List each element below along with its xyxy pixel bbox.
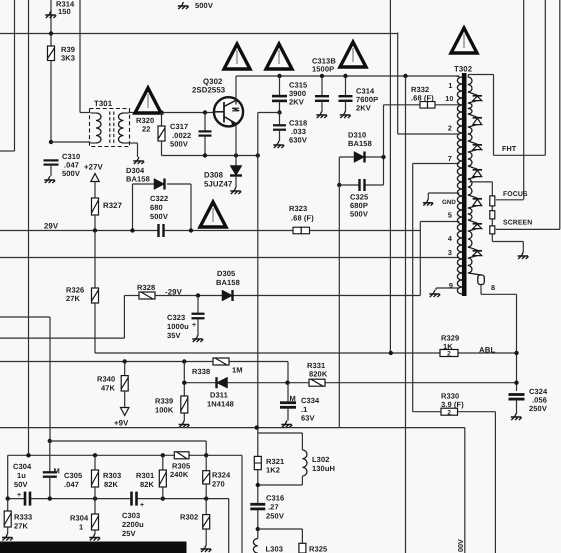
warning triangle top 2 bbox=[266, 44, 292, 69]
svg-text:C305: C305 bbox=[64, 471, 82, 480]
ground C334 bbox=[281, 421, 292, 428]
diode D311 bbox=[217, 377, 228, 388]
svg-text:R302: R302 bbox=[180, 513, 198, 522]
resistor R325 bbox=[299, 543, 306, 553]
resistor R324 bbox=[205, 455, 207, 470]
ground T301 secondary bbox=[133, 157, 144, 164]
capacitor C318 bbox=[279, 113, 281, 126]
svg-text:680: 680 bbox=[150, 203, 163, 212]
node R39 top bbox=[49, 31, 53, 35]
inductor L303 bbox=[253, 539, 257, 553]
node 455-28 bbox=[26, 453, 30, 457]
svg-text:5: 5 bbox=[448, 211, 452, 220]
svg-text:R340: R340 bbox=[97, 375, 115, 384]
FOCUS wire bbox=[496, 199, 524, 201]
node 498-206 bbox=[204, 496, 208, 500]
capacitor C313B bbox=[321, 76, 323, 96]
resistor R333 bbox=[7, 499, 9, 511]
node D311 left bbox=[182, 381, 186, 385]
svg-text:7: 7 bbox=[448, 154, 452, 163]
node L302 bottom bbox=[256, 483, 260, 487]
wire C325 line bbox=[339, 184, 383, 186]
node 498-95 bbox=[93, 496, 97, 500]
wire right drop 495 bbox=[494, 412, 496, 553]
svg-text:1000u: 1000u bbox=[167, 322, 189, 331]
wire pin7 drop bbox=[412, 164, 414, 412]
node C317 bottom bbox=[203, 153, 207, 157]
node C317 top bbox=[203, 110, 207, 114]
svg-text:2200u: 2200u bbox=[122, 520, 144, 529]
T302 secondary winding chain bbox=[468, 77, 472, 92]
resistor R328 bbox=[124, 295, 139, 297]
wire top bus 33.5 bbox=[0, 33, 398, 35]
resistor R331 bbox=[309, 379, 325, 386]
resistor R326 bbox=[94, 231, 96, 289]
svg-text:R304: R304 bbox=[70, 514, 89, 523]
capacitor C316 bbox=[256, 504, 260, 509]
svg-text:5JUZ47: 5JUZ47 bbox=[204, 180, 232, 189]
svg-text:.27: .27 bbox=[268, 503, 279, 512]
svg-text:10: 10 bbox=[445, 94, 453, 103]
svg-text:C316: C316 bbox=[266, 494, 284, 503]
capacitor C323 bbox=[197, 296, 199, 314]
wire 339 drop bbox=[338, 185, 340, 428]
wire bias line 441 bbox=[48, 439, 52, 443]
wire base line bbox=[162, 112, 216, 114]
resistor R329 bbox=[440, 350, 458, 357]
svg-text:R328: R328 bbox=[137, 283, 155, 292]
svg-text:2: 2 bbox=[447, 351, 451, 358]
svg-text:47K: 47K bbox=[101, 384, 116, 393]
wire -29V line bbox=[198, 295, 420, 297]
svg-text:C323: C323 bbox=[167, 313, 185, 322]
wire D310 top line bbox=[339, 156, 383, 158]
svg-text:D311: D311 bbox=[210, 391, 228, 400]
svg-text:3.9 (F): 3.9 (F) bbox=[441, 400, 464, 409]
node loop top-right bbox=[381, 155, 385, 159]
resistor R320 bbox=[161, 113, 163, 127]
svg-text:8: 8 bbox=[491, 283, 495, 292]
svg-text:25V: 25V bbox=[122, 529, 136, 538]
capacitor C303 bbox=[132, 497, 137, 501]
node C314 top bbox=[343, 74, 347, 78]
svg-text:500V: 500V bbox=[62, 169, 80, 178]
node T301 primary bottom bbox=[49, 140, 53, 144]
wire bus end drop bbox=[287, 362, 289, 383]
svg-text:.68 (F): .68 (F) bbox=[411, 94, 434, 103]
wire right edge drop 464 bbox=[464, 428, 466, 553]
wire drop 228 bbox=[228, 499, 230, 553]
resistor R301 bbox=[162, 455, 164, 470]
T302 pin 9 wire bbox=[436, 287, 459, 289]
svg-text:00V: 00V bbox=[456, 539, 465, 552]
svg-text:500V: 500V bbox=[170, 140, 188, 149]
warning triangle top 3 bbox=[340, 42, 366, 67]
svg-text:1u: 1u bbox=[17, 471, 26, 480]
wire loop left bbox=[338, 157, 340, 185]
svg-text:BA158: BA158 bbox=[126, 175, 150, 184]
node C315 top bbox=[277, 74, 281, 78]
svg-text:+9V: +9V bbox=[114, 419, 129, 428]
ground C318 bbox=[273, 141, 284, 148]
resistor R327 bbox=[94, 182, 96, 199]
svg-text:R333: R333 bbox=[14, 513, 32, 522]
resistor R321 bbox=[254, 456, 261, 469]
ground C323 bbox=[192, 335, 203, 342]
svg-text:L302: L302 bbox=[312, 455, 330, 464]
svg-text:1: 1 bbox=[79, 523, 83, 532]
capacitor C334 bbox=[287, 383, 289, 403]
wire collector bus 76 bbox=[236, 75, 459, 77]
ground C310 bbox=[44, 176, 55, 183]
svg-text:1500P: 1500P bbox=[312, 65, 334, 74]
resistor R339 bbox=[181, 396, 188, 413]
svg-text:R327: R327 bbox=[103, 201, 122, 210]
ground T302 GND pin bbox=[423, 199, 433, 206]
resistor R323 bbox=[293, 227, 310, 234]
wire T301 secondary top to base line bbox=[123, 112, 129, 114]
T302 pin 1 bbox=[457, 76, 460, 77]
svg-text:1K: 1K bbox=[443, 342, 453, 351]
svg-text:R301: R301 bbox=[136, 471, 154, 480]
capacitor C304 bbox=[25, 497, 30, 501]
ground C324 bbox=[511, 413, 522, 420]
svg-text:29V: 29V bbox=[44, 222, 59, 231]
ground T302 pin 9 bbox=[429, 290, 440, 297]
svg-text:4: 4 bbox=[448, 234, 452, 243]
wire vertical 405 long bbox=[405, 76, 407, 553]
T302 GND pin wire bbox=[428, 192, 459, 194]
svg-text:+: + bbox=[192, 322, 196, 329]
wire tap to main vertical bbox=[258, 112, 280, 114]
capacitor C315 bbox=[279, 76, 281, 96]
svg-text:C304: C304 bbox=[13, 462, 32, 471]
inductor L302 bbox=[302, 450, 307, 476]
resistor R314 lead bbox=[50, 0, 52, 34]
screen edge vertical bbox=[559, 0, 561, 229]
FHT loop wire bbox=[493, 75, 495, 156]
warning triangle right top bbox=[451, 28, 477, 53]
ground top center bbox=[178, 2, 189, 9]
node R340 top bbox=[123, 359, 127, 363]
svg-text:R324: R324 bbox=[212, 471, 231, 480]
resistor R338 bbox=[213, 358, 229, 365]
svg-text:C317: C317 bbox=[170, 122, 188, 131]
wire Q302 collector bbox=[235, 76, 237, 100]
node loop bottom-left bbox=[337, 183, 341, 187]
svg-text:R325: R325 bbox=[309, 545, 327, 553]
svg-text:3: 3 bbox=[448, 248, 452, 257]
transistor Q302 bbox=[214, 97, 243, 126]
wire L302 loop bbox=[258, 432, 303, 434]
node D304 left bbox=[130, 228, 134, 232]
resistor R340 bbox=[124, 362, 126, 376]
svg-text:500V: 500V bbox=[150, 212, 168, 221]
svg-text:+: + bbox=[140, 502, 144, 509]
capacitor C324 bbox=[515, 395, 519, 400]
warning triangle top 1 bbox=[224, 44, 250, 69]
node 455-206 bbox=[204, 453, 208, 457]
node 455-95 bbox=[93, 453, 97, 457]
wire bus 455 bbox=[8, 454, 242, 456]
wire R330 line bbox=[413, 411, 441, 413]
svg-text:T301: T301 bbox=[94, 99, 113, 108]
node R331 left bbox=[285, 381, 289, 385]
svg-text:R339: R339 bbox=[155, 397, 173, 406]
svg-text:FHT: FHT bbox=[502, 144, 517, 153]
diode D305 bbox=[222, 290, 233, 301]
wire 29V bus bbox=[0, 230, 420, 232]
T302 pin 5 wire bbox=[420, 221, 459, 223]
node C313B top bbox=[320, 74, 324, 78]
svg-text:BA158: BA158 bbox=[216, 278, 240, 287]
svg-text:2SD2553: 2SD2553 bbox=[192, 86, 226, 95]
wire pin2 feed bbox=[397, 33, 399, 135]
wire R332 drop bbox=[383, 105, 385, 157]
T302 pin 2 wire bbox=[398, 133, 460, 135]
svg-text:+: + bbox=[17, 492, 21, 499]
supply +9V arrow bbox=[121, 408, 129, 416]
focus-screen divider bbox=[491, 182, 493, 242]
svg-text:+27V: +27V bbox=[84, 163, 104, 172]
svg-text:270: 270 bbox=[212, 480, 225, 489]
svg-text:-29V: -29V bbox=[165, 288, 183, 297]
svg-text:1M: 1M bbox=[232, 366, 243, 375]
wire T301 secondary bottom to ground bbox=[123, 142, 138, 144]
node bus-405 bbox=[403, 74, 407, 78]
svg-text:GND: GND bbox=[442, 199, 456, 206]
svg-text:SCREEN: SCREEN bbox=[503, 220, 532, 227]
svg-text:FOCUS: FOCUS bbox=[503, 191, 528, 198]
node 498-7 bbox=[6, 496, 10, 500]
wire left rail A bbox=[14, 0, 16, 151]
wire pin3 line bbox=[0, 257, 459, 259]
svg-text:.68 (F): .68 (F) bbox=[291, 214, 314, 223]
node D304 right bbox=[189, 228, 193, 232]
capacitor C325 bbox=[360, 183, 365, 187]
svg-text:82K: 82K bbox=[104, 480, 119, 489]
svg-text:22: 22 bbox=[142, 125, 151, 134]
svg-text:1K2: 1K2 bbox=[266, 466, 280, 475]
node 455-162 bbox=[161, 453, 165, 457]
warning triangle middle bbox=[200, 202, 226, 227]
node R339 top bbox=[182, 359, 186, 363]
T302 HV tap to divider bbox=[470, 181, 493, 183]
T302 HV top wire bbox=[468, 74, 493, 76]
node 498-162 bbox=[161, 496, 165, 500]
wire 317 stub bbox=[0, 316, 50, 318]
ground C314 bbox=[340, 111, 351, 118]
diode D304 loop bbox=[132, 184, 134, 231]
svg-text:3K3: 3K3 bbox=[61, 54, 75, 63]
capacitor C305 bbox=[49, 441, 51, 472]
node 498-49 bbox=[48, 496, 52, 500]
svg-text:150: 150 bbox=[58, 7, 71, 16]
svg-text:250V: 250V bbox=[266, 512, 284, 521]
resistor R304 bbox=[94, 499, 96, 514]
wire D311 line bbox=[183, 362, 185, 397]
wire bus 498.6 bbox=[8, 498, 229, 500]
node 390-353 bbox=[389, 351, 393, 355]
wire T301 primary bottom bbox=[51, 141, 91, 143]
svg-text:C303: C303 bbox=[122, 511, 140, 520]
ground R339 bbox=[179, 421, 190, 428]
capacitor C310 bbox=[49, 160, 53, 164]
wire left rail B bbox=[28, 0, 30, 455]
T302 pin 10 wire R332 bbox=[420, 102, 435, 109]
svg-text:130uH: 130uH bbox=[312, 464, 335, 473]
capacitor C314 bbox=[345, 76, 347, 96]
svg-text:500V: 500V bbox=[195, 1, 213, 10]
svg-text:M: M bbox=[54, 467, 60, 476]
node C323 top bbox=[196, 293, 200, 297]
svg-text:2: 2 bbox=[448, 124, 452, 133]
diode D308 bbox=[235, 156, 237, 166]
svg-text:D308: D308 bbox=[204, 171, 224, 180]
svg-text:820K: 820K bbox=[309, 370, 328, 379]
T302 pin 8 terminal bbox=[468, 273, 481, 275]
svg-text:9: 9 bbox=[449, 281, 453, 290]
svg-text:2: 2 bbox=[447, 409, 451, 416]
svg-text:63V: 63V bbox=[301, 414, 315, 423]
SCREEN wire bbox=[496, 228, 560, 230]
node 427 main bbox=[255, 425, 259, 429]
diode D310 bbox=[354, 152, 365, 163]
svg-text:L303: L303 bbox=[266, 545, 284, 553]
ground near R314 bbox=[45, 11, 56, 18]
svg-text:ABL: ABL bbox=[479, 346, 495, 355]
T302 primary winding bbox=[457, 77, 462, 294]
ground R302 bbox=[201, 545, 212, 552]
capacitor C317 bbox=[204, 113, 206, 132]
svg-text:M: M bbox=[290, 394, 296, 403]
T302 pin 7 wire bbox=[413, 163, 460, 165]
focus long vertical bbox=[523, 0, 525, 200]
svg-text:500V: 500V bbox=[350, 210, 368, 219]
svg-text:82K: 82K bbox=[140, 480, 155, 489]
transformer T301 bbox=[90, 109, 130, 147]
R328 lead wire bbox=[123, 296, 125, 339]
wire loop right bbox=[383, 157, 385, 185]
node ABL bbox=[514, 351, 518, 355]
node emitter bbox=[234, 153, 238, 157]
wire long bus 427.6 bbox=[0, 427, 465, 429]
svg-text:.047: .047 bbox=[64, 480, 79, 489]
resistor R305 bbox=[174, 452, 189, 459]
svg-text:27K: 27K bbox=[66, 294, 81, 303]
svg-text:2KV: 2KV bbox=[356, 104, 371, 113]
svg-text:R338: R338 bbox=[192, 367, 210, 376]
divider bottom to ground bbox=[492, 241, 523, 243]
svg-text:T302: T302 bbox=[454, 65, 473, 74]
wire R325 branch bbox=[258, 528, 303, 530]
wire Q302 emitter bbox=[235, 125, 237, 156]
node R327 bottom bbox=[93, 228, 97, 232]
wire emitter line 155.5 bbox=[162, 155, 258, 157]
node 155 right bbox=[256, 153, 260, 157]
warning triangle near T301 bbox=[135, 88, 161, 113]
svg-text:1: 1 bbox=[448, 81, 452, 90]
svg-text:250V: 250V bbox=[529, 404, 547, 413]
ground R333 bbox=[2, 534, 13, 541]
svg-text:2KV: 2KV bbox=[289, 98, 304, 107]
svg-text:R303: R303 bbox=[103, 471, 121, 480]
svg-text:35V: 35V bbox=[167, 331, 181, 340]
wire main vertical 257 long bbox=[257, 156, 259, 457]
wire drop 242 bbox=[241, 455, 243, 553]
svg-text:C334: C334 bbox=[301, 396, 320, 405]
scan artifact bottom bar bbox=[0, 542, 187, 553]
ground C313B bbox=[316, 111, 327, 118]
supply +27V arrow bbox=[91, 174, 99, 182]
node C324 top bbox=[514, 381, 518, 385]
svg-text:50V: 50V bbox=[14, 480, 28, 489]
resistor R303 bbox=[94, 455, 96, 470]
svg-text:R323: R323 bbox=[289, 204, 307, 213]
capacitor C322 bbox=[159, 229, 164, 233]
wire pin5 drop bbox=[419, 222, 421, 296]
node R320 top bbox=[159, 110, 163, 114]
ground divider bbox=[518, 252, 529, 259]
node C315-C318 tap bbox=[277, 110, 281, 114]
svg-text:27K: 27K bbox=[14, 522, 29, 531]
resistor R39 bbox=[50, 34, 52, 47]
ground D308 bbox=[230, 187, 241, 194]
ground R304 bbox=[89, 534, 100, 541]
resistor R330 bbox=[441, 408, 458, 415]
wire to T301 primary top bbox=[79, 0, 81, 113]
wire vertical 390 from top bbox=[389, 0, 391, 353]
svg-text:100K: 100K bbox=[155, 406, 174, 415]
wire main vertical 257 lower bbox=[257, 470, 259, 505]
svg-text:D305: D305 bbox=[217, 269, 235, 278]
transformer T302 core bbox=[462, 73, 467, 296]
wire bus 361.5 bbox=[0, 361, 288, 363]
node C316 bottom bbox=[256, 527, 260, 531]
resistor R302 bbox=[205, 499, 207, 515]
svg-text:BA158: BA158 bbox=[348, 139, 372, 148]
svg-text:1N4148: 1N4148 bbox=[207, 400, 234, 409]
svg-text:C322: C322 bbox=[150, 194, 168, 203]
wire pin8 to ABL rail bbox=[480, 285, 482, 295]
svg-text:240K: 240K bbox=[170, 470, 189, 479]
svg-text:630V: 630V bbox=[289, 136, 307, 145]
